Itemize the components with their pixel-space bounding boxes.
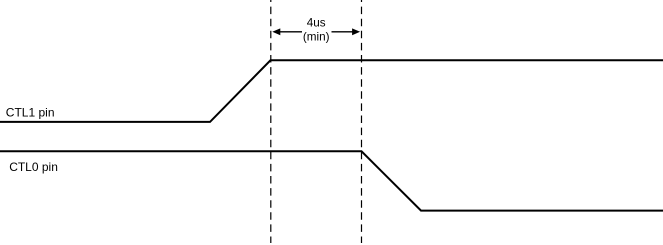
- svg-text:CTL1 pin: CTL1 pin: [6, 105, 55, 119]
- dimension arrow left half: [272, 28, 302, 35]
- dashed timing reference line (right): [361, 0, 363, 243]
- CTL1 pin waveform: [0, 60, 663, 122]
- dimension arrow right half: [332, 28, 361, 35]
- svg-text:4us: 4us: [307, 17, 326, 30]
- svg-text:(min): (min): [303, 31, 330, 44]
- dashed timing reference line (left): [270, 0, 272, 243]
- svg-text:CTL0 pin: CTL0 pin: [9, 160, 58, 174]
- CTL0 pin waveform: [0, 151, 663, 210]
